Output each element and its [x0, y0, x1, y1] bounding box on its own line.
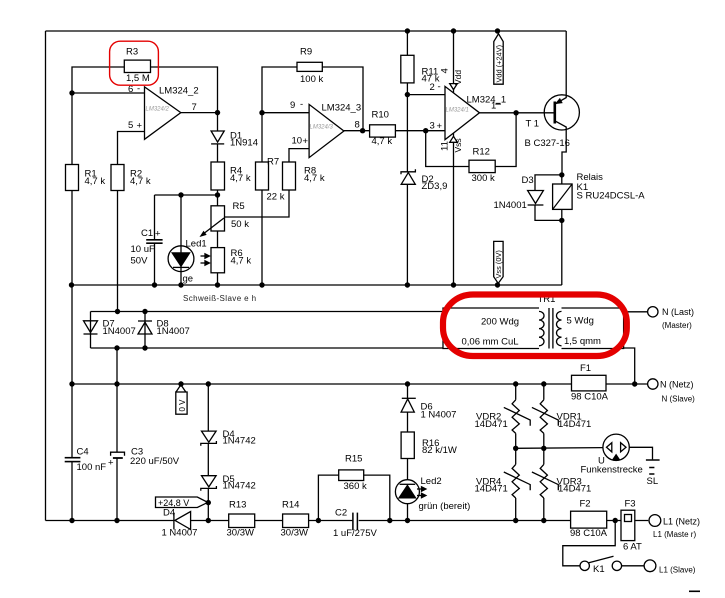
svg-text:14D471: 14D471: [558, 484, 591, 495]
svg-text:4,7 k: 4,7 k: [231, 256, 252, 267]
svg-text:Vdd (+24V): Vdd (+24V): [494, 45, 503, 83]
LED Led2 triangle: [399, 485, 415, 498]
wire bottom rail segment 1: [46, 520, 175, 522]
junction node 24.8V flag: [206, 500, 211, 505]
highlight ellipse around TR1: [443, 295, 627, 357]
fuse F3 body: [621, 510, 635, 540]
svg-text:N (Last): N (Last): [662, 307, 694, 317]
wire left rail: [45, 31, 47, 521]
svg-text:LM324/1: LM324/1: [446, 108, 469, 114]
wire pin10: [289, 149, 309, 162]
diode D7 bar: [84, 333, 98, 335]
junction dots top rail: [405, 28, 410, 33]
svg-text:N (Netz): N (Netz): [660, 380, 694, 390]
LED Led1 circle: [168, 246, 194, 272]
svg-text:360 k: 360 k: [344, 481, 367, 492]
wire R3 right to node7: [151, 67, 218, 113]
svg-text:0 V: 0 V: [178, 399, 187, 412]
wire primary top rail: [91, 311, 444, 313]
LED Led2 arrow 1: [417, 488, 422, 490]
varistor VDR2 zigzag: [512, 400, 519, 434]
junction node relay top: [559, 172, 564, 177]
svg-text:S RU24DCSL-A: S RU24DCSL-A: [577, 191, 646, 202]
spark gap right electrode: [621, 443, 626, 452]
transformer TR1 core: [548, 308, 550, 349]
svg-text:+: +: [155, 229, 161, 240]
resistor R9: [297, 62, 322, 71]
op-amp U LM324_2: [145, 87, 181, 139]
svg-text:+: +: [108, 458, 114, 469]
svg-text:6 AT: 6 AT: [623, 542, 642, 553]
svg-text:R12: R12: [473, 147, 490, 158]
diode D4 zener triangle: [202, 431, 217, 442]
wire primary bottom rail: [91, 347, 444, 349]
junction node pin6: [69, 90, 74, 95]
diode D8 bar: [138, 320, 152, 322]
svg-text:C2: C2: [335, 508, 347, 519]
transformer TR1 primary box: [443, 308, 539, 349]
transformer TR1 secondary coil: [557, 311, 562, 345]
svg-text:200 Wdg: 200 Wdg: [481, 317, 519, 328]
svg-text:LM324/2: LM324/2: [146, 107, 170, 113]
wire R10 to pin3: [395, 130, 445, 132]
svg-text:2: 2: [430, 82, 435, 93]
svg-text:4,7 k: 4,7 k: [230, 173, 251, 184]
svg-text:LM324_2: LM324_2: [159, 86, 199, 97]
wire VDR2 to mid node: [515, 433, 517, 448]
wire R12 feedback loop: [495, 113, 516, 167]
switch K1 blade: [589, 556, 614, 563]
ground SL bar3: [649, 473, 654, 475]
fuse F3 inner square: [625, 515, 632, 522]
wire C4 column bottom: [71, 462, 73, 521]
wire R9 right: [322, 67, 363, 131]
svg-text:Led2: Led2: [421, 476, 442, 487]
flag Vss 0V: [494, 241, 503, 283]
junction dots mid rail: [69, 282, 74, 287]
wire R2 bottom to primary rail: [117, 191, 119, 312]
svg-text:1N4007: 1N4007: [103, 326, 136, 337]
wire Vss 0V mid rail: [72, 284, 562, 286]
svg-text:4: 4: [440, 68, 451, 73]
svg-text:10 uF: 10 uF: [131, 244, 155, 255]
capacitor C4 plate 2: [65, 461, 81, 463]
svg-text:22 k: 22 k: [267, 192, 285, 203]
svg-text:grün (bereit): grün (bereit): [419, 501, 471, 512]
switch K1 contact circle 1: [580, 561, 589, 570]
svg-text:LM324_3: LM324_3: [322, 103, 362, 114]
svg-text:7: 7: [192, 102, 197, 113]
wire top +24V rail: [46, 30, 567, 32]
resistor R7: [256, 162, 269, 190]
svg-text:1 N4007: 1 N4007: [421, 410, 457, 421]
diode D7 column: [90, 312, 92, 349]
svg-text:L1 (Slave): L1 (Slave): [659, 566, 696, 575]
capacitor C2 plate 1: [352, 513, 354, 531]
svg-text:14D471: 14D471: [475, 484, 508, 495]
svg-text:4,7 k: 4,7 k: [85, 176, 106, 187]
transformer TR1 secondary box: [562, 308, 624, 349]
diode D5 zener bar: [201, 486, 217, 491]
capacitor C4 plate 1: [65, 457, 81, 459]
svg-text:F3: F3: [625, 499, 636, 510]
wire output pin7: [181, 112, 218, 114]
svg-text:1N4001: 1N4001: [494, 200, 527, 211]
fuse F2: [571, 511, 607, 528]
junction node C1 top line: [178, 192, 183, 197]
resistor R1: [66, 165, 79, 191]
junction node pin2: [405, 92, 410, 97]
wire R16 to Led2: [407, 459, 409, 480]
junction dots bottom rail: [69, 518, 74, 523]
diode D8 triangle: [138, 322, 152, 334]
op-amp U LM324_1: [445, 86, 480, 139]
svg-text:11: 11: [440, 141, 451, 151]
resistor R13: [229, 514, 255, 528]
svg-text:+: +: [437, 121, 443, 132]
wire VDR4 to bottom rail: [515, 498, 517, 521]
diode D5 zener triangle: [202, 476, 217, 487]
svg-text:3: 3: [430, 121, 435, 132]
svg-text:B C327-16: B C327-16: [525, 138, 570, 149]
diode D4 horizontal triangle: [175, 512, 191, 530]
pin 11 power triangle: [450, 136, 458, 142]
wire transformer secondary bottom drop: [624, 348, 635, 384]
wire VDR3 to bottom rail: [543, 498, 545, 521]
wire R1 column to 0V rail: [71, 285, 73, 384]
svg-text:1N4742: 1N4742: [223, 481, 256, 492]
transistor T1 emitter arrow: [556, 99, 561, 103]
wire relay top: [561, 175, 563, 184]
svg-text:0,06 mm CuL: 0,06 mm CuL: [462, 337, 519, 348]
diode D6 triangle: [401, 399, 414, 412]
varistor VDR2 column top: [515, 384, 517, 400]
wire 0V rail right of F1: [606, 383, 648, 385]
terminal L1 Netz: [649, 515, 661, 527]
wire R12 left to pin3 node: [426, 131, 469, 167]
wire C1 bottom: [154, 243, 156, 285]
wire pin2: [407, 94, 445, 96]
diode D2 zener bar: [401, 169, 415, 174]
svg-text:-: -: [438, 82, 441, 93]
diode D3 bar: [528, 204, 544, 206]
highlight ellipse around R3: [110, 41, 159, 85]
LED Led2 circle: [395, 480, 419, 504]
svg-text:R14: R14: [282, 500, 299, 511]
terminal N Last: [648, 307, 658, 317]
varistor VDR3 zigzag: [540, 464, 547, 498]
wire D5 to bottom rail: [207, 488, 209, 520]
pin 4 power triangle: [450, 84, 458, 90]
svg-text:R3: R3: [126, 47, 138, 58]
transistor T1 emitter: [555, 31, 566, 104]
wire Led1 column: [180, 195, 182, 285]
wire R1 bottom: [71, 191, 73, 286]
resistor R6: [211, 248, 225, 273]
svg-text:14D471: 14D471: [475, 419, 508, 430]
wire VDR1 to mid node: [543, 433, 545, 448]
svg-text:98 C10A: 98 C10A: [571, 392, 609, 403]
wire R4 bottom: [217, 190, 219, 206]
wire C3 column top: [116, 348, 118, 452]
wire C3 column bottom: [116, 458, 118, 521]
svg-text:R7: R7: [267, 157, 279, 168]
LED Led1 arrow 1: [201, 255, 206, 257]
wire pin4 Vdd: [453, 31, 455, 93]
varistor VDR3 column top: [543, 448, 545, 464]
svg-text:C4: C4: [77, 447, 89, 458]
diode D7 triangle: [84, 321, 98, 333]
diode D8 column: [144, 312, 146, 349]
wire pin6: [72, 92, 145, 94]
svg-text:30/3W: 30/3W: [281, 528, 308, 539]
svg-text:50V: 50V: [131, 256, 149, 267]
junction node R10 left: [360, 128, 365, 133]
svg-text:50 k: 50 k: [231, 219, 249, 230]
wire R5 wiper: [225, 216, 263, 218]
wire D6 to R16: [407, 412, 409, 432]
LED Led1 bar: [173, 266, 189, 268]
svg-text:R10: R10: [372, 110, 389, 121]
wire pin9: [262, 112, 309, 114]
varistor VDR4 column top: [515, 448, 517, 464]
transistor T1 collector: [555, 121, 566, 175]
wire C4 column top: [71, 384, 73, 457]
diode D2 zener triangle: [401, 173, 415, 185]
svg-text:1 uF/275V: 1 uF/275V: [333, 528, 377, 539]
capacitor C3 straight plate: [113, 457, 123, 459]
wire pin5: [118, 132, 145, 165]
svg-text:K1: K1: [593, 564, 605, 575]
svg-text:82 k/1W: 82 k/1W: [422, 445, 457, 456]
svg-text:1,5 qmm: 1,5 qmm: [564, 336, 601, 347]
wire relay bottom: [561, 209, 563, 220]
svg-text:Led1: Led1: [186, 239, 207, 250]
resistor R8: [283, 162, 296, 190]
svg-text:5 Wdg: 5 Wdg: [567, 316, 594, 327]
wire bottom rail segment 4: [309, 520, 353, 522]
svg-text:4,7 k: 4,7 k: [372, 136, 393, 147]
svg-text:300 k: 300 k: [472, 173, 495, 184]
capacitor C3 bracket plate: [111, 452, 125, 456]
junction dots VDR middle row: [513, 446, 518, 451]
ground SL bar2: [649, 467, 654, 469]
varistor VDR3 strike: [532, 472, 558, 490]
wire bottom rail segment 5: [359, 520, 571, 522]
resistor R4: [211, 162, 225, 190]
svg-text:98 C10A: 98 C10A: [570, 528, 608, 539]
svg-text:1N4742: 1N4742: [223, 436, 256, 447]
junction node pin1 out: [513, 110, 518, 115]
resistor R12: [469, 160, 495, 172]
junction node 7: [215, 110, 220, 115]
wire node line C1 Led1 R5: [155, 194, 218, 196]
flag Vdd +24V: [494, 34, 503, 84]
diode D4 horizontal bar: [173, 513, 175, 530]
svg-text:C1: C1: [141, 228, 153, 239]
svg-text:L1 (Netz): L1 (Netz): [663, 517, 700, 527]
LED Led2 bar: [400, 483, 416, 485]
transistor Q T1 circle: [544, 95, 579, 130]
svg-text:14D471: 14D471: [558, 419, 591, 430]
relay K1 coil diagonal: [553, 184, 573, 209]
wire VDR middle row to spark gap: [516, 447, 603, 450]
svg-text:ZD3,9: ZD3,9: [422, 181, 448, 192]
svg-text:4,7 k: 4,7 k: [304, 173, 325, 184]
transistor T1 base bar: [553, 102, 556, 124]
varistor VDR1 strike: [532, 407, 558, 425]
svg-text:SL: SL: [647, 476, 659, 487]
resistor R10: [370, 125, 396, 137]
LED Led1 triangle: [172, 253, 189, 266]
svg-text:1: 1: [491, 101, 496, 112]
svg-text:+: +: [137, 121, 143, 132]
capacitor C1 plate 2: [146, 242, 162, 244]
potentiometer R5 arrow: [203, 218, 225, 235]
svg-text:Vss: Vss: [453, 138, 463, 152]
svg-text:(Master): (Master): [662, 321, 692, 330]
LED Led2 arrow 2: [417, 495, 422, 497]
wire output pin8 to R10: [344, 130, 370, 132]
flag 0V: [176, 385, 186, 392]
resistor R14: [283, 514, 309, 528]
wire R6 bottom: [217, 273, 219, 285]
svg-text:5: 5: [128, 120, 133, 131]
wire D6 column top: [407, 384, 409, 398]
wire D3 loop top: [535, 175, 562, 191]
junction dots primary top rail: [115, 309, 120, 314]
diode D1 triangle: [211, 131, 224, 142]
svg-text:+: +: [303, 136, 309, 147]
varistor VDR1 zigzag: [540, 400, 547, 434]
spark gap bottom electrode: [613, 455, 619, 460]
svg-text:1,5 M: 1,5 M: [126, 73, 150, 84]
svg-text:10: 10: [292, 136, 303, 147]
svg-text:R13: R13: [229, 500, 246, 511]
wire R15 loop left: [318, 475, 338, 520]
junction dots 0V rail: [69, 381, 74, 386]
LED Led1 arrow 2: [201, 262, 206, 264]
junction node relay bottom: [559, 218, 564, 223]
svg-text:1N4007: 1N4007: [157, 326, 190, 337]
wire D1 to R4: [217, 144, 219, 162]
wire bottom rail segment 3: [255, 520, 283, 522]
svg-text:-: -: [300, 99, 303, 110]
varistor VDR4 zigzag: [512, 464, 519, 498]
diode D3 triangle: [528, 191, 544, 204]
spark gap left electrode: [607, 443, 612, 452]
svg-text:LM324/3: LM324/3: [310, 125, 334, 131]
terminal N Netz: [648, 379, 658, 389]
ground SL bar1: [646, 459, 660, 461]
varistor VDR4 strike: [504, 472, 530, 490]
wire R7 bottom to mid rail: [261, 190, 263, 285]
capacitor C1 plate 1: [146, 239, 162, 241]
resistor R15: [339, 470, 364, 481]
terminal L1 Slave: [644, 560, 656, 572]
wire bottom rail segment 2: [191, 520, 229, 522]
switch K1 contact circle 2: [612, 561, 621, 570]
spark gap U circle: [603, 434, 629, 460]
svg-text:+24,8 V: +24,8 V: [158, 498, 189, 508]
svg-text:220 uF/50V: 220 uF/50V: [130, 456, 180, 467]
varistor VDR1 column top: [543, 384, 545, 400]
wire R11 top: [406, 31, 408, 55]
svg-text:Vdd: Vdd: [453, 70, 463, 85]
wire R5 to R6: [217, 231, 219, 248]
wire R3 left to R1 column: [72, 67, 124, 165]
svg-text:F2: F2: [580, 499, 591, 510]
wire pin11 Vss: [453, 133, 455, 285]
svg-text:Vss (0V): Vss (0V): [494, 250, 503, 278]
wire bottom rail segment 6: [607, 520, 649, 522]
wire R11 bottom to D2: [406, 83, 408, 172]
wire R8 bottom: [262, 190, 289, 217]
page mark bottom right: [689, 590, 700, 592]
resistor R3: [124, 60, 150, 72]
svg-text:100 nF: 100 nF: [77, 462, 107, 473]
diode D4 zener bar: [201, 441, 217, 446]
svg-text:ge: ge: [183, 274, 194, 285]
resistor R11: [401, 55, 414, 83]
wire node7 to D1: [217, 113, 219, 131]
wire between zeners: [207, 443, 209, 475]
diode D6 bar: [402, 397, 416, 399]
flag +24.8V: [156, 497, 208, 508]
svg-text:9: 9: [290, 100, 295, 111]
wire D4 D5 zener column: [207, 384, 209, 431]
svg-text:4,7 k: 4,7 k: [130, 176, 151, 187]
varistor VDR2 strike: [504, 407, 530, 425]
wire relay to mid rail: [561, 220, 563, 285]
svg-text:T 1: T 1: [526, 119, 540, 130]
svg-text:100 k: 100 k: [300, 74, 323, 85]
svg-text:R5: R5: [233, 201, 245, 212]
wire D2 bottom to mid rail: [406, 184, 408, 285]
wire spark gap to earth: [629, 447, 652, 459]
svg-text:D4: D4: [163, 508, 175, 519]
resistor R5: [211, 206, 225, 231]
wire C1 column: [154, 195, 156, 239]
wire transformer secondary top to N Last: [624, 311, 648, 313]
wire K1 to L1 Slave: [622, 565, 645, 567]
svg-text:Schweiß-Slave e h: Schweiß-Slave e h: [183, 294, 257, 303]
wire output pin1 to T1 base: [480, 112, 555, 114]
junction dots primary bottom rail: [114, 345, 119, 350]
resistor R2: [111, 165, 124, 191]
resistor R16: [401, 432, 414, 459]
svg-text:L1 (Maste r): L1 (Maste r): [653, 530, 696, 539]
wire K1 branch: [563, 521, 615, 566]
fuse F1: [572, 375, 607, 391]
wire 0V horizontal rail: [72, 383, 572, 385]
svg-text:8: 8: [355, 120, 360, 131]
svg-text:N (Slave): N (Slave): [662, 395, 696, 404]
wire Led2 to bottom rail: [407, 504, 409, 521]
diode D1 bar: [211, 143, 224, 145]
svg-text:1 N4007: 1 N4007: [162, 528, 198, 539]
wire R9 left: [262, 67, 297, 113]
junction node pin9: [259, 110, 264, 115]
svg-text:D3: D3: [522, 175, 534, 186]
wire R15 loop right: [364, 475, 390, 520]
svg-text:Funkenstrecke: Funkenstrecke: [581, 465, 643, 476]
wire R7 top: [261, 113, 263, 162]
capacitor C2 plate 2: [356, 513, 358, 531]
op-amp U LM324_3: [309, 104, 344, 157]
svg-text:R15: R15: [345, 454, 362, 465]
junction node pin3: [423, 128, 428, 133]
